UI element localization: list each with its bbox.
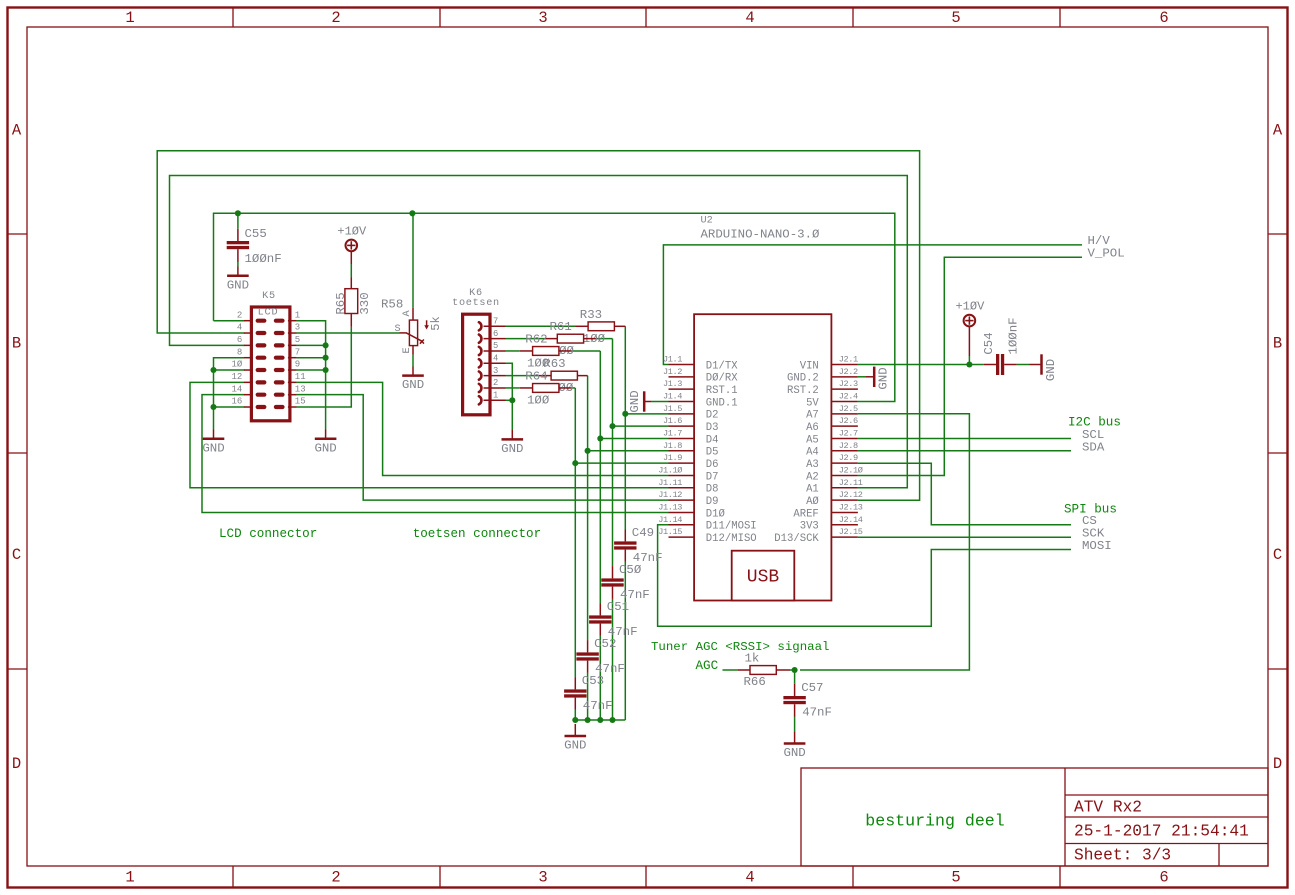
wire MOSI net (D11/MOSI J1.14 routed under USB)	[658, 525, 1071, 627]
ground J2.2 (rotated)	[866, 376, 874, 378]
USB box	[732, 551, 795, 601]
wire AGC input to R66	[723, 669, 739, 671]
wire K6 pins 4,1 to ground	[506, 363, 513, 430]
frame column ticks bottom	[232, 866, 234, 887]
svg-text:C5Ø: C5Ø	[619, 563, 642, 577]
svg-text:6: 6	[237, 335, 242, 345]
svg-text:J2.15: J2.15	[839, 527, 863, 537]
svg-text:5: 5	[951, 869, 960, 887]
svg-text:E: E	[402, 347, 413, 353]
ground R58	[412, 367, 414, 376]
U2 pin J1.13 D1Ø	[669, 511, 695, 513]
svg-text:C: C	[1273, 546, 1282, 564]
svg-text:AØ: AØ	[806, 496, 819, 508]
svg-text:K5: K5	[262, 291, 276, 302]
svg-text:R66: R66	[744, 675, 766, 689]
U2 pin J1.9 D6	[669, 462, 695, 464]
wire C57 bottom to ground	[794, 717, 796, 732]
svg-text:4: 4	[745, 869, 754, 887]
svg-text:D13/SCK: D13/SCK	[774, 533, 819, 545]
U2 pin J1.12 D9	[669, 499, 695, 501]
svg-text:A: A	[402, 309, 413, 316]
K5 pin 3	[288, 332, 297, 334]
svg-text:LCD connector: LCD connector	[219, 527, 317, 541]
wire button net to D4 (J1.7) and C51	[599, 351, 601, 603]
svg-text:J2.11: J2.11	[839, 478, 863, 488]
U2 pin J1.2 DØ/RX	[669, 376, 695, 378]
wire J1.4 to ground symbol	[651, 401, 669, 403]
svg-text:1: 1	[295, 310, 300, 320]
svg-text:SPI bus: SPI bus	[1064, 502, 1117, 516]
K6 pin 1	[484, 399, 506, 401]
svg-text:C: C	[12, 546, 21, 564]
junction K5 pin16 gnd	[210, 404, 216, 410]
wire R62 output to vertical	[571, 350, 600, 352]
supply +10V (VIN)	[964, 315, 976, 327]
svg-text:D12/MISO: D12/MISO	[706, 533, 757, 545]
resistor R33 100	[576, 325, 589, 327]
svg-text:2: 2	[493, 378, 498, 388]
svg-text:MOSI: MOSI	[1082, 539, 1112, 553]
svg-text:J1.7: J1.7	[663, 428, 682, 438]
frame column ticks top	[232, 8, 234, 27]
svg-text:J2.14: J2.14	[839, 515, 863, 525]
svg-text:A: A	[1273, 122, 1283, 140]
wire rail to LCD E (A1 net: J2.11 to K5 pin6)	[170, 176, 908, 488]
wire button net to D3 (J1.6) and C50	[612, 339, 614, 566]
svg-text:GND: GND	[314, 441, 336, 455]
svg-text:C51: C51	[607, 600, 629, 614]
capacitor C54 100nF	[984, 364, 996, 366]
K6 pin 3	[484, 375, 506, 377]
ground C55	[237, 267, 239, 276]
svg-text:3: 3	[538, 869, 547, 887]
svg-text:toetsen connector: toetsen connector	[413, 527, 541, 541]
wire K6 pin7 to R33	[506, 325, 576, 327]
svg-text:USB: USB	[747, 567, 780, 587]
svg-text:J2.1Ø: J2.1Ø	[839, 465, 863, 475]
K5 pin 11	[288, 381, 297, 383]
K5 pin 6	[244, 344, 253, 346]
svg-text:5: 5	[493, 341, 498, 351]
svg-text:U2: U2	[701, 215, 713, 226]
svg-text:1ØØnF: 1ØØnF	[245, 252, 282, 266]
K5 pin 5	[288, 344, 297, 346]
wire SCL net (A5 J2.7)	[858, 438, 1071, 440]
K6 pin 2	[484, 387, 506, 389]
svg-text:C54: C54	[982, 332, 996, 354]
wire button net to D6 (J1.9) and C53	[574, 388, 576, 677]
svg-text:C57: C57	[801, 681, 823, 695]
wire VIN net (J2.1 to +10V and C54)	[858, 364, 969, 366]
svg-text:J1.6: J1.6	[663, 416, 682, 426]
svg-text:besturing deel: besturing deel	[865, 812, 1004, 831]
svg-text:25-1-2017 21:54:41: 25-1-2017 21:54:41	[1074, 823, 1249, 841]
svg-text:C52: C52	[594, 637, 616, 651]
svg-text:47nF: 47nF	[802, 705, 832, 719]
svg-text:AGC: AGC	[696, 659, 719, 673]
capacitor C57 47nF	[794, 684, 796, 696]
svg-text:3: 3	[538, 9, 547, 27]
wire VIN to C54	[969, 364, 983, 366]
svg-text:D: D	[12, 755, 21, 773]
svg-text:4: 4	[745, 9, 754, 27]
svg-text:J1.13: J1.13	[658, 502, 682, 512]
svg-text:+1ØV: +1ØV	[955, 300, 985, 314]
wire C57 top lead	[794, 670, 796, 684]
U2 pin J2.6 A6	[831, 425, 858, 427]
wire K6 pin3 to R63	[506, 375, 539, 377]
svg-text:J2.13: J2.13	[839, 502, 863, 512]
op-amp U2 ARDUINO-NANO-3.0 outline	[694, 314, 831, 600]
junction K5 pin9 gnd	[323, 367, 329, 373]
svg-text:2: 2	[331, 9, 340, 27]
wire LCD D7 (K5 pin11 to D7 J1.10)	[296, 382, 668, 475]
ground K5 left	[213, 430, 215, 439]
junction J1.7 RC node	[597, 435, 603, 441]
svg-text:1k: 1k	[745, 652, 760, 666]
wire rail to LCD RS (A0 net: J2.12 to K5 pin4)	[157, 151, 919, 500]
svg-text:GND.2: GND.2	[787, 373, 819, 385]
wire CS net (A3 J2.9 to CS label)	[858, 463, 1071, 525]
svg-text:GND: GND	[202, 441, 224, 455]
ground J1.4 (rotated)	[644, 401, 651, 403]
svg-text:4: 4	[493, 353, 498, 363]
junction cap bus C53	[572, 717, 578, 723]
junction 5V rail / C55	[235, 210, 241, 216]
svg-text:3V3: 3V3	[800, 521, 819, 533]
U2 pin J2.3 RST.2	[831, 388, 858, 390]
svg-text:J1.1Ø: J1.1Ø	[658, 465, 682, 475]
svg-text:RST.1: RST.1	[706, 385, 738, 397]
U2 pin J1.14 D11/MOSI	[669, 524, 695, 526]
U2 pin J2.2 GND.2	[831, 376, 858, 378]
U2 pin J1.8 D5	[669, 450, 695, 452]
svg-text:D6: D6	[706, 459, 719, 471]
svg-text:3: 3	[295, 323, 300, 333]
frame row ticks left	[8, 233, 27, 235]
svg-text:R58: R58	[381, 298, 403, 312]
wire A7 to AGC (J2.5 down to RC node)	[800, 414, 969, 670]
U2 pin J2.5 A7	[831, 413, 858, 415]
wire LCD D5 (K5 pin12 to D8 J1.11)	[190, 382, 669, 487]
capacitor C51 47nF	[599, 603, 601, 615]
svg-text:V_POL: V_POL	[1088, 247, 1125, 261]
wire R66 to C57 node	[790, 669, 795, 671]
svg-text:13: 13	[295, 384, 306, 394]
svg-text:A5: A5	[806, 434, 819, 446]
svg-text:1: 1	[493, 390, 498, 400]
U2 pin J1.5 D2	[669, 413, 695, 415]
svg-text:11: 11	[295, 372, 306, 382]
svg-text:GND: GND	[628, 390, 642, 412]
svg-text:5: 5	[951, 9, 960, 27]
U2 pin J2.11 A1	[831, 487, 858, 489]
svg-text:2: 2	[331, 869, 340, 887]
svg-text:GND.1: GND.1	[706, 397, 738, 409]
svg-text:J1.11: J1.11	[658, 478, 682, 488]
svg-text:J1.15: J1.15	[658, 527, 682, 537]
svg-text:6: 6	[1159, 869, 1168, 887]
svg-text:7: 7	[295, 347, 300, 357]
svg-text:A3: A3	[806, 459, 819, 471]
junction J1.8 RC node	[585, 448, 591, 454]
svg-text:J1.4: J1.4	[663, 391, 682, 401]
wire R64 output to vertical	[571, 387, 575, 389]
svg-text:ARDUINO-NANO-3.Ø: ARDUINO-NANO-3.Ø	[701, 228, 821, 242]
K5 pin 12	[244, 381, 253, 383]
wire LCD D6 (K5 pin13 to D9 J1.12)	[296, 395, 668, 500]
wire 5V rail (net to J2.4, K5 pin2, C55, R58-A)	[214, 213, 895, 401]
svg-text:A4: A4	[806, 447, 819, 459]
junction 5V rail / R58 A	[409, 210, 415, 216]
svg-text:J1.2: J1.2	[663, 367, 682, 377]
svg-text:J1.3: J1.3	[663, 379, 682, 389]
svg-text:J2.6: J2.6	[839, 416, 858, 426]
svg-text:D9: D9	[706, 496, 719, 508]
svg-text:7: 7	[493, 317, 498, 327]
svg-text:A7: A7	[806, 410, 819, 422]
wire button net to D5 (J1.8) and C52	[587, 376, 589, 640]
svg-text:J2.12: J2.12	[839, 490, 863, 500]
svg-text:J1.9: J1.9	[663, 453, 682, 463]
U2 pin J1.11 D8	[669, 487, 695, 489]
svg-text:R65: R65	[334, 292, 348, 314]
K5 pin 8	[244, 357, 253, 359]
svg-text:LCD: LCD	[258, 308, 279, 319]
resistor R63 100	[538, 375, 551, 377]
svg-text:A: A	[12, 122, 22, 140]
svg-text:1ØØ: 1ØØ	[527, 394, 550, 408]
capacitor C49 47nF	[624, 529, 626, 541]
svg-text:ATV Rx2: ATV Rx2	[1074, 799, 1142, 817]
svg-text:R62: R62	[525, 333, 547, 347]
svg-text:16: 16	[231, 397, 242, 407]
wire LCD D4 (K5 pin14 to D10 J1.13)	[202, 395, 669, 513]
svg-text:RST.2: RST.2	[787, 385, 819, 397]
svg-text:Sheet: 3/3: Sheet: 3/3	[1074, 847, 1171, 865]
U2 pin J2.8 A4	[831, 450, 858, 452]
svg-text:D: D	[1273, 755, 1282, 773]
svg-text:A2: A2	[806, 471, 819, 483]
svg-text:GND: GND	[501, 442, 523, 456]
svg-text:SDA: SDA	[1082, 440, 1105, 454]
wire K5 pin15 to R65 (backlight)	[296, 327, 351, 407]
K5 pin 7	[288, 357, 297, 359]
wire K5 pin2 to 5V rail	[214, 320, 245, 322]
connector K5 LCD	[251, 307, 290, 421]
svg-text:R64: R64	[525, 370, 547, 384]
svg-text:J2.9: J2.9	[839, 453, 858, 463]
K5 pin 1	[288, 320, 297, 322]
svg-text:D4: D4	[706, 434, 719, 446]
U2 pin J1.15 D12/MISO	[669, 536, 695, 538]
ground K5 right	[325, 430, 327, 439]
svg-text:Tuner AGC <RSSI> signaal: Tuner AGC <RSSI> signaal	[651, 640, 829, 654]
K5 pin 15	[288, 406, 297, 408]
U2 pin J2.1 VIN	[831, 364, 858, 366]
U2 pin J2.10 A2	[831, 474, 858, 476]
junction K5 pin5 gnd	[323, 342, 329, 348]
svg-text:VIN: VIN	[800, 360, 819, 372]
svg-text:3: 3	[493, 366, 498, 376]
svg-text:15: 15	[295, 397, 306, 407]
junction J1.5 RC node	[622, 411, 628, 417]
svg-text:J2.7: J2.7	[839, 428, 858, 438]
svg-text:J2.4: J2.4	[839, 391, 858, 401]
connector K6 toetsen	[463, 314, 490, 415]
K6 pin 5	[484, 350, 506, 352]
svg-text:C53: C53	[582, 674, 604, 688]
svg-text:5V: 5V	[806, 397, 819, 409]
U2 pin J1.3 RST.1	[669, 388, 695, 390]
trimmer R58 5k	[412, 213, 414, 307]
ground K6	[511, 430, 513, 439]
U2 pin J2.15 D13/SCK	[831, 536, 858, 538]
U2 pin J2.12 AØ	[831, 499, 858, 501]
wire button net to D2 (J1.5) and C49	[624, 326, 626, 529]
svg-text:D1Ø: D1Ø	[706, 508, 726, 520]
svg-text:C55: C55	[245, 227, 267, 241]
resistor R65 330	[350, 278, 352, 289]
svg-text:8: 8	[237, 347, 242, 357]
junction K5 pin10 gnd	[210, 367, 216, 373]
wire K6 pin6 to R61	[506, 338, 545, 340]
svg-text:5: 5	[295, 335, 300, 345]
U2 pin J1.4 GND.1	[669, 400, 695, 402]
svg-text:1ØØnF: 1ØØnF	[1007, 317, 1021, 354]
svg-text:D3: D3	[706, 422, 719, 434]
svg-text:D1/TX: D1/TX	[706, 360, 738, 372]
svg-text:AREF: AREF	[793, 508, 818, 520]
junction cap bus C52	[585, 717, 591, 723]
resistor R62 100	[520, 350, 533, 352]
junction cap bus C51	[597, 717, 603, 723]
svg-text:J2.3: J2.3	[839, 379, 858, 389]
junction VIN / +10V / C54	[966, 361, 972, 367]
wire V_POL net (A2 J2.10 to V_POL label)	[858, 257, 1082, 475]
wire R61 output to vertical	[596, 338, 613, 340]
wire H/V net (D1/TX to H/V label)	[663, 245, 1082, 365]
svg-text:S: S	[394, 324, 400, 335]
svg-text:GND: GND	[1044, 359, 1058, 381]
svg-text:D11/MOSI: D11/MOSI	[706, 521, 757, 533]
frame row ticks right	[1268, 233, 1287, 235]
svg-text:GND: GND	[402, 378, 424, 392]
U2 pin J2.7 A5	[831, 437, 858, 439]
junction J1.6 RC node	[609, 423, 615, 429]
resistor R64 100	[520, 387, 533, 389]
svg-text:12: 12	[231, 372, 242, 382]
svg-text:GND: GND	[564, 739, 586, 753]
svg-text:DØ/RX: DØ/RX	[706, 373, 738, 385]
svg-text:B: B	[12, 335, 21, 353]
svg-text:GND: GND	[783, 746, 805, 760]
svg-text:J2.1: J2.1	[839, 355, 858, 365]
svg-text:J1.5: J1.5	[663, 404, 682, 414]
svg-text:4: 4	[237, 323, 242, 333]
capacitor C55	[237, 213, 239, 228]
svg-text:J2.2: J2.2	[839, 367, 858, 377]
svg-text:6: 6	[493, 329, 498, 339]
U2 pin J1.10 D7	[669, 474, 695, 476]
svg-text:14: 14	[231, 384, 242, 394]
svg-text:A6: A6	[806, 422, 819, 434]
svg-text:R61: R61	[550, 320, 572, 334]
svg-text:330: 330	[358, 292, 372, 314]
K6 pin 7	[484, 325, 506, 327]
capacitor C53 47nF	[574, 677, 576, 689]
K6 pin 4	[484, 362, 506, 364]
svg-text:+1ØV: +1ØV	[337, 224, 367, 238]
svg-text:J1.14: J1.14	[658, 515, 682, 525]
svg-text:9: 9	[295, 360, 300, 370]
junction J1.9 RC node	[572, 460, 578, 466]
svg-text:6: 6	[1159, 9, 1168, 27]
K5 pin 2	[244, 320, 253, 322]
supply +10V (R65)	[346, 240, 358, 252]
svg-text:toetsen: toetsen	[452, 298, 500, 309]
wire J2.2 to ground symbol	[858, 376, 866, 378]
svg-text:J1.1: J1.1	[663, 355, 682, 365]
K5 pin 9	[288, 369, 297, 371]
ground C57	[794, 731, 796, 743]
U2 pin J1.7 D4	[669, 437, 695, 439]
U2 pin J1.6 D3	[669, 425, 695, 427]
resistor R61 100	[545, 338, 558, 340]
U2 pin J1.1 D1/TX	[669, 364, 695, 366]
svg-text:D2: D2	[706, 410, 719, 422]
svg-text:J1.12: J1.12	[658, 490, 682, 500]
capacitor C50 47nF	[612, 566, 614, 578]
ground C54 (rotated)	[1017, 364, 1030, 366]
junction K6 pin1 gnd	[509, 397, 515, 403]
U2 pin J2.13 AREF	[831, 511, 858, 513]
wire SDA net (A4 J2.8)	[858, 450, 1071, 452]
wire SCK net (D13/SCK J2.15)	[858, 536, 1071, 538]
svg-text:2: 2	[237, 310, 242, 320]
svg-text:C49: C49	[632, 526, 654, 540]
svg-text:47nF: 47nF	[583, 699, 613, 713]
svg-text:1: 1	[125, 869, 134, 887]
junction AGC RC node	[792, 667, 798, 673]
svg-text:1Ø: 1Ø	[231, 360, 242, 370]
title block frame	[801, 768, 1268, 866]
svg-text:D8: D8	[706, 484, 719, 496]
svg-text:I2C bus: I2C bus	[1068, 415, 1121, 429]
svg-text:GND: GND	[877, 367, 891, 389]
wire K6 pin5 to R62	[506, 350, 520, 352]
ground capacitor bank	[574, 724, 576, 736]
svg-text:D7: D7	[706, 471, 719, 483]
svg-text:D5: D5	[706, 447, 719, 459]
wire K5 left ground (pins 8,10,16)	[214, 358, 245, 430]
U2 pin J2.14 3V3	[831, 524, 858, 526]
K5 pin 13	[288, 394, 297, 396]
junction cap bus C50	[609, 717, 615, 723]
svg-text:A1: A1	[806, 484, 819, 496]
K5 pin 16	[244, 406, 253, 408]
wire K5 right ground (pins 1,5,7,9)	[296, 321, 325, 430]
svg-text:J2.5: J2.5	[839, 404, 858, 414]
U2 pin J2.9 A3	[831, 462, 858, 464]
K6 pin 6	[484, 338, 506, 340]
wire capacitor bank ground bus	[575, 719, 625, 721]
wire K5 pin3 to R58 wiper (contrast)	[296, 332, 399, 334]
capacitor C52 47nF	[587, 640, 589, 652]
junction K5 pin7 gnd	[323, 355, 329, 361]
K5 pin 10	[244, 369, 253, 371]
